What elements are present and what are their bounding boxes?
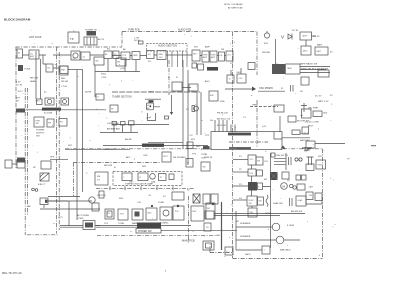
block 59 66: [59, 66, 68, 75]
svg-text:ANT JACK: ANT JACK: [29, 35, 42, 39]
svg-text:T1: T1: [97, 97, 99, 99]
wire x197 x201 verticals: [197, 92, 201, 135]
wire x171.5 arrow: [171, 95, 173, 112]
svg-text:VOL: VOL: [250, 159, 254, 161]
block headphone amp: [198, 64, 204, 70]
capacitor C5: [291, 85, 294, 92]
svg-text:8 OHM: 8 OHM: [287, 225, 294, 227]
lamp circle: [150, 174, 156, 180]
svg-text:OSC: OSC: [236, 72, 241, 74]
svg-text:TAPE RADIO SW: TAPE RADIO SW: [300, 63, 318, 66]
label outlined box: [136, 229, 161, 234]
svg-text:AT TAPE PLAY: AT TAPE PLAY: [228, 7, 243, 10]
svg-text:AUDIO SECTION: AUDIO SECTION: [158, 45, 177, 48]
svg-text:SW: SW: [257, 161, 260, 163]
svg-text:TAPE PCB: TAPE PCB: [128, 29, 140, 32]
svg-text:ADPT: ADPT: [303, 35, 309, 38]
wire bottom mid y235.7: [97, 235, 218, 237]
block 40 198: [40, 198, 48, 205]
svg-text:FUNC: FUNC: [249, 200, 255, 202]
svg-text:POWER SW: POWER SW: [138, 230, 152, 233]
inductor row l1: [129, 121, 135, 125]
svg-text:REC/PB: REC/PB: [30, 78, 39, 80]
block 186 158.5: [186, 159, 193, 168]
connector left edge: [5, 160, 12, 168]
block dark strip left: [16, 109, 25, 113]
svg-text:BIAS: BIAS: [159, 53, 164, 56]
svg-text:MTR: MTR: [164, 156, 169, 158]
label dark text strip: [207, 67, 218, 71]
transistor T1 transformer: [84, 37, 97, 45]
svg-text:MOTOR SW: MOTOR SW: [297, 121, 310, 123]
wire double line left: [96, 226, 137, 228]
wire osc: [225, 88, 252, 90]
capacitor C8: [290, 198, 293, 206]
svg-text:FM: FM: [97, 176, 100, 178]
wire y214 double: [214, 214, 305, 216]
svg-text:EAR JACK: EAR JACK: [280, 249, 291, 252]
svg-text:SUPPLY: SUPPLY: [36, 133, 45, 135]
block reg circle: [45, 98, 54, 105]
svg-text:C 105: C 105: [61, 86, 68, 88]
block b6: [173, 206, 184, 220]
svg-text:FM IF: FM IF: [147, 105, 153, 107]
svg-text:EXT: EXT: [16, 98, 21, 100]
svg-text:TON: TON: [249, 173, 254, 175]
svg-text:BND: BND: [148, 213, 153, 215]
wire y145.5 labeled line: [103, 145, 208, 147]
block audio section dashed: [147, 43, 188, 51]
wire x280 down: [279, 116, 281, 132]
block r2c1: [248, 169, 256, 176]
battery B1 symbol: [302, 148, 312, 150]
block r4c1: [247, 196, 257, 206]
notch on box: [274, 132, 282, 139]
wire top edge y47: [16, 46, 123, 48]
svg-text:JACK: JACK: [245, 253, 251, 256]
svg-text:SPEAKER: SPEAKER: [240, 222, 251, 225]
block 288 116: [288, 116, 296, 122]
svg-text:TAPE: TAPE: [287, 67, 293, 70]
svg-text:SW: SW: [309, 195, 312, 197]
dash mark: [371, 144, 376, 147]
block 116 58: [116, 58, 126, 66]
wire lines right: [300, 67, 330, 73]
wire long y230.5: [161, 230, 237, 232]
wire x286 vertical: [285, 153, 287, 170]
wire to right: [312, 35, 317, 37]
connector circles pair: [295, 158, 298, 161]
svg-text:MDL-TP-470 U/C: MDL-TP-470 U/C: [2, 271, 22, 275]
block output: [226, 51, 233, 61]
block 301 109: [302, 109, 312, 118]
block reg 47 119: [47, 119, 54, 127]
wire drops to y71.5: [108, 59, 136, 72]
block cassette lid: [286, 64, 301, 74]
svg-text:CORD: CORD: [77, 218, 84, 220]
block ac adaptor: [300, 32, 312, 40]
label power dark box: [137, 223, 161, 229]
wire audio board left x122: [121, 32, 123, 48]
block stereo dashed container: [113, 172, 182, 186]
svg-text:FRONT PCB: FRONT PCB: [237, 148, 250, 150]
svg-text:AC: AC: [28, 205, 31, 208]
block 302 127: [302, 127, 309, 134]
speaker circle 1: [272, 223, 280, 231]
block af amp2: [132, 52, 140, 60]
svg-text:POWER: POWER: [36, 130, 45, 132]
svg-text:BELT: BELT: [308, 126, 314, 128]
wire y69: [68, 69, 83, 71]
block b1: [105, 209, 114, 219]
thick wire x221.5: [221, 202, 223, 250]
svg-text:TONE: TONE: [118, 223, 125, 225]
block 306 164: [306, 164, 314, 171]
wire stubs above: [231, 68, 241, 75]
block pair 315 193: [315, 193, 322, 201]
wire x188 vertical: [187, 70, 189, 165]
wire y253 dash: [210, 252, 232, 254]
svg-text:(3V): (3V): [323, 113, 327, 115]
block top small row: [172, 192, 184, 200]
wire y132.5: [100, 132, 138, 134]
block ind 2: [138, 173, 148, 181]
wire x36 x40.5 verticals: [36, 51, 41, 99]
wire connector: [12, 163, 17, 165]
connector circles: [32, 188, 35, 191]
wire into sp2: [236, 239, 300, 241]
wire to right: [315, 143, 345, 145]
block b3: [132, 209, 143, 220]
svg-text:NOTE: VOLTAGES: NOTE: VOLTAGES: [224, 3, 243, 6]
wire bottom edge y235: [27, 234, 59, 236]
block dark fuse: [18, 65, 23, 71]
block eq IC: [147, 51, 155, 59]
svg-text:EQ: EQ: [107, 49, 110, 51]
svg-text:AM RF: AM RF: [125, 138, 132, 141]
block r1c2: [256, 157, 263, 165]
svg-text:AGC: AGC: [205, 80, 210, 83]
block mute SW: [192, 50, 200, 61]
svg-text:TUNER SECTION: TUNER SECTION: [112, 96, 132, 99]
svg-text:OSC: OSC: [159, 57, 164, 59]
block r4 right: [296, 196, 306, 206]
svg-text:LEAF SW: LEAF SW: [273, 202, 284, 205]
block input 2: [29, 50, 39, 59]
wire audio board top y31.5: [122, 31, 256, 33]
svg-text:TON: TON: [120, 214, 125, 216]
diode D1: [288, 34, 292, 40]
block 292 130: [292, 130, 300, 135]
block below IF U bracket: [148, 113, 156, 121]
block cassette dark: [272, 64, 285, 74]
block AC inlet dark: [87, 31, 97, 36]
marks T: [307, 157, 314, 165]
texture smudges: [18, 30, 333, 256]
wire x270.5 vertical long: [270, 153, 272, 248]
svg-text:SW: SW: [259, 201, 262, 203]
wire into sp1: [236, 226, 272, 228]
wire stem up and right: [151, 101, 161, 107]
svg-text:AUDIO PCB: AUDIO PCB: [178, 29, 192, 32]
block ind 4: [169, 174, 174, 180]
wire drops from audio box: [168, 51, 188, 67]
wire stubs: [114, 125, 131, 133]
capacitor C7: [289, 157, 292, 165]
svg-text:STEREO INDICATOR LAMP: STEREO INDICATOR LAMP: [125, 182, 154, 185]
wire ticks y188.3: [96, 187, 195, 189]
block 189 84: [189, 84, 198, 91]
block 274 105: [274, 105, 284, 112]
crystal X1: [194, 106, 199, 111]
texture inner box text: [18, 33, 323, 253]
label dark strip mid: [42, 108, 61, 111]
block IF IC main: [147, 103, 154, 110]
block dark box left low: [17, 158, 25, 163]
block 225 247: [225, 247, 233, 255]
transistor Q3 circle: [81, 52, 90, 60]
speaker circle 2: [276, 236, 284, 244]
svg-text:BATT 4.5V: BATT 4.5V: [318, 100, 329, 103]
wire left bus y109: [26, 109, 103, 111]
block buffer 103: [104, 51, 112, 59]
svg-text:TUNE: TUNE: [158, 202, 164, 204]
wire into jack: [60, 201, 100, 227]
block r2c2: [257, 170, 263, 176]
svg-text:DC IN: DC IN: [292, 30, 298, 32]
block reg small: [37, 99, 43, 105]
wire left edge x16: [15, 47, 17, 168]
svg-text:DET: DET: [142, 166, 147, 168]
svg-text:MUTE: MUTE: [85, 92, 92, 94]
svg-text:AM FM SW: AM FM SW: [291, 210, 303, 213]
block power amp L: [202, 51, 209, 62]
svg-text:CAM: CAM: [309, 186, 314, 189]
svg-text:AMP: AMP: [205, 46, 210, 49]
block eq amp lower: [46, 64, 53, 72]
wire audio board right x257: [256, 32, 258, 149]
svg-text:VOL: VOL: [201, 157, 206, 159]
wire front board bottom y258.4: [233, 257, 323, 259]
resistor hatch: [274, 159, 286, 165]
block 41 161: [41, 161, 51, 169]
wire dash y162.5: [73, 162, 160, 164]
svg-text:EXT: EXT: [264, 43, 269, 45]
block 94 57: [94, 57, 104, 65]
block with X: [193, 194, 200, 203]
transistor circle 92 200: [89, 197, 95, 203]
svg-text:VOL: VOL: [104, 223, 109, 225]
block buffer 113: [113, 51, 119, 59]
svg-text:REC: REC: [196, 146, 201, 148]
svg-text:PWR: PWR: [318, 165, 323, 167]
block top right box: [209, 91, 218, 101]
block reg 59 119: [59, 119, 67, 127]
wire transformer core: [87, 37, 94, 45]
wire battery drop: [305, 40, 307, 46]
wire x77 long vertical: [76, 70, 78, 220]
block ac jack inner dark: [85, 223, 93, 228]
block r5c1: [248, 208, 257, 217]
svg-text:SPEAKER: SPEAKER: [240, 235, 251, 238]
svg-text:AFC: AFC: [126, 156, 131, 159]
wire chain bus: [23, 54, 227, 57]
svg-text:HEAD: HEAD: [30, 80, 36, 83]
svg-text:FUSE: FUSE: [25, 69, 31, 71]
arrowhead on dash: [281, 146, 286, 149]
connector phone jack circle: [264, 33, 269, 38]
wire y209: [40, 208, 100, 210]
wire dash x188.5: [188, 196, 190, 244]
motor M dark block: [270, 172, 278, 180]
svg-text:FM 88-108: FM 88-108: [217, 113, 228, 115]
svg-text:4.5V: 4.5V: [16, 82, 21, 84]
wire front board top y148.8: [65, 148, 322, 150]
block input 1: [17, 49, 23, 58]
board outline main left (dash-dot): [16, 32, 323, 259]
svg-text:J: J: [264, 250, 265, 252]
capacitor row c1: [112, 122, 117, 126]
wire drop x43: [43, 55, 59, 68]
wire right of box: [282, 137, 310, 139]
block battery: [315, 47, 328, 55]
svg-text:PHONE: PHONE: [262, 52, 270, 54]
block 201 162: [201, 162, 210, 171]
svg-text:EJECT: EJECT: [38, 184, 46, 186]
block small 237: [237, 74, 246, 83]
wire row3: [233, 185, 271, 188]
svg-text:TP: TP: [70, 37, 74, 41]
block dc jack: [301, 46, 311, 55]
svg-text:CUE: CUE: [143, 155, 148, 157]
block dark r3: [248, 182, 257, 191]
flex cable squiggle: [266, 195, 268, 207]
wire row4 feed: [233, 199, 247, 201]
wire y250: [236, 249, 262, 251]
wire front board right x322.5: [322, 149, 324, 259]
block af amp: [121, 52, 130, 60]
block power amp R: [210, 51, 217, 62]
block b9: [206, 203, 215, 219]
block r3 right: [297, 184, 305, 190]
svg-text:MAIN PCB: MAIN PCB: [182, 239, 195, 243]
block 313 111: [313, 111, 322, 117]
wire y124.5: [112, 124, 169, 126]
label dark strip on line: [142, 144, 164, 147]
svg-text:L-CH: L-CH: [134, 37, 140, 39]
block 203 241: [203, 241, 214, 250]
svg-text:R 12: R 12: [18, 91, 23, 93]
wire jack stem: [275, 39, 277, 64]
block 204 223: [204, 223, 211, 231]
svg-text:SW PCB: SW PCB: [97, 195, 106, 197]
block transistor circle 61 98: [61, 98, 69, 105]
svg-text:C103: C103: [101, 77, 107, 79]
svg-text:SW: SW: [249, 203, 252, 205]
block 110 105: [110, 105, 118, 112]
wire y71.5: [95, 71, 140, 73]
transistor Q2 circle: [71, 51, 80, 60]
svg-text:R101: R101: [101, 74, 107, 76]
block b2: [118, 209, 128, 220]
svg-text:AC IN: AC IN: [98, 38, 104, 41]
capacitor C1 tiny box: [139, 41, 144, 44]
block 172 82: [172, 82, 182, 91]
block ac jack outer: [83, 221, 95, 230]
block 248 62: [248, 63, 255, 70]
block r1c1: [248, 155, 256, 165]
svg-text:MEC: MEC: [193, 211, 198, 213]
junction arrow: [252, 87, 256, 92]
svg-text:PB SW: PB SW: [61, 81, 69, 83]
block bias osc: [157, 51, 166, 60]
svg-text:BLOCK DIAGRAM: BLOCK DIAGRAM: [4, 18, 31, 22]
wire x183 vertical: [182, 60, 184, 149]
wire row1 feed: [233, 159, 248, 161]
junction dot dark: [177, 205, 179, 207]
svg-text:TUNING: TUNING: [160, 223, 169, 225]
block small 99 191: [99, 191, 104, 198]
svg-text:DC IN: DC IN: [16, 85, 22, 87]
wire cross: [301, 103, 307, 112]
wire dash mid: [250, 106, 278, 108]
block 92 203: [92, 203, 99, 211]
svg-text:B+ LINE: B+ LINE: [44, 113, 53, 115]
block small 96 94: [96, 94, 104, 100]
block tiny 164.5 116: [165, 116, 169, 119]
block b4: [146, 208, 157, 220]
wire dash x73.5: [73, 163, 75, 197]
svg-text:SW: SW: [36, 123, 39, 125]
block driver: [219, 52, 225, 61]
wire y92 long: [112, 91, 200, 93]
wire dash x169: [168, 60, 170, 95]
svg-text:DC 3V: DC 3V: [315, 95, 322, 97]
svg-text:IF 10.7M: IF 10.7M: [217, 125, 226, 127]
block FM antenna: [68, 32, 79, 43]
texture scan specks: [21, 30, 336, 257]
block b8: [191, 206, 204, 221]
svg-text:REC: REC: [61, 78, 66, 80]
capacitor row c2: [121, 122, 126, 126]
svg-text:AC POWER: AC POWER: [77, 214, 89, 217]
wire corner: [209, 244, 211, 253]
wire right of label: [161, 225, 191, 227]
wire over IF: [145, 98, 161, 100]
block pair small: [296, 175, 301, 180]
block r4c2: [258, 197, 264, 205]
label dark strip in box: [228, 133, 251, 136]
block 40 173 hatch: [40, 173, 49, 181]
svg-text:L: L: [124, 177, 125, 179]
svg-text:117V: 117V: [58, 217, 63, 219]
wire vertical dash x57.8 doubled: [57, 47, 60, 234]
wire x82.5 vertical: [82, 70, 84, 192]
svg-text:FM: FM: [103, 110, 106, 112]
svg-text:DR: DR: [221, 49, 225, 51]
label dark AM small: [149, 100, 154, 102]
svg-text:TONE SW: TONE SW: [274, 155, 285, 157]
block 306 141: [306, 141, 315, 148]
block 17 160: [17, 160, 25, 168]
wire stem: [44, 201, 68, 208]
junction dot b4: [151, 205, 153, 207]
svg-text:VOL: VOL: [264, 161, 269, 163]
block tiny 187 142: [187, 142, 193, 149]
wire y142.7: [148, 142, 183, 144]
wire inner left dash x25.5 doubled: [25, 88, 27, 235]
svg-text:T2: T2: [229, 79, 231, 81]
